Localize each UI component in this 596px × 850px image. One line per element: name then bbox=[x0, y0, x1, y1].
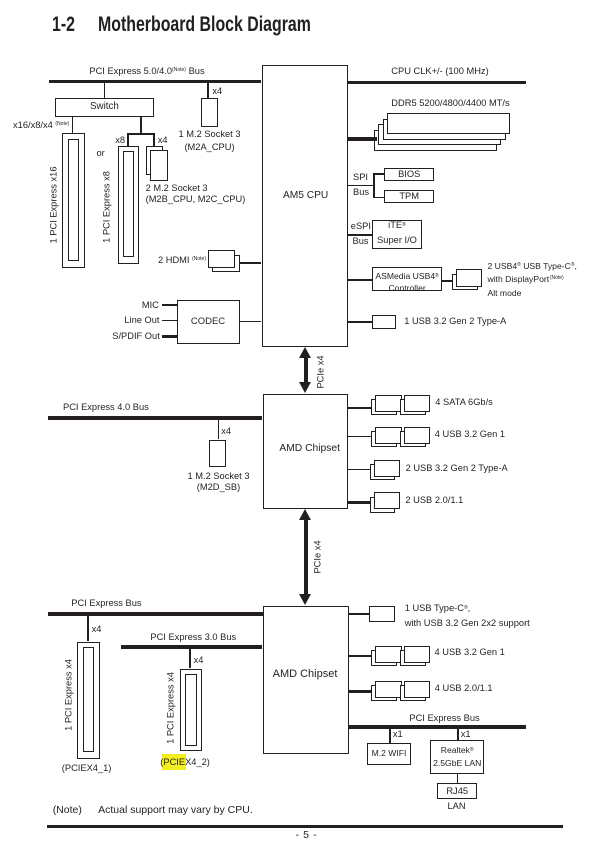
label: eSPI Bus bbox=[351, 222, 371, 231]
label: page number bbox=[296, 830, 318, 841]
icon: c2 USB2 connector 2 back bbox=[400, 685, 426, 701]
wire: S/PDIF line (thick) bbox=[162, 335, 177, 338]
label: Line Out bbox=[120, 316, 160, 325]
wire: chipset2 to USB3.2g1 bbox=[349, 655, 372, 656]
wire: bus to Switch bbox=[104, 83, 106, 98]
box: TPM bbox=[384, 190, 434, 204]
label: x4 (M2D) bbox=[221, 427, 231, 436]
box: M2D socket bbox=[209, 440, 226, 468]
icon: c2 USB g1 connector 1 back bbox=[371, 650, 397, 666]
box: AM5 CPU bbox=[262, 65, 349, 347]
wire: bus to M2A socket (thick) bbox=[207, 83, 209, 98]
wire: PCIe bus bottom-right (thick) bbox=[349, 725, 527, 729]
icon: 2 M.2 sockets front rect bbox=[150, 150, 168, 180]
box: AMD Chipset (lower) bbox=[263, 606, 349, 754]
icon: USB g2 connector front bbox=[374, 460, 400, 477]
icon: USB g1 connector 2 front bbox=[404, 427, 431, 444]
label: PCI Express 5.0/4.0 Bus bbox=[89, 67, 204, 76]
icon: HDMI front rect bbox=[208, 250, 235, 268]
box: Realtek 2.5GbE LAN bbox=[430, 740, 484, 773]
label: x1 (lan) bbox=[461, 730, 471, 739]
label: x4 (M2A) bbox=[212, 87, 222, 96]
icon: 2 M.2 sockets back rect bbox=[146, 146, 163, 175]
label: PCI Express 4.0 Bus bbox=[63, 403, 149, 412]
label: PCIe x4 (rotated, upper) bbox=[316, 355, 325, 388]
wire: junction right drop to M.2 pair bbox=[153, 133, 155, 147]
label: 1 USB Type-C with USB 3.2 Gen 2x2 support bbox=[405, 602, 530, 628]
label: x4 (M.2 pair) bbox=[158, 136, 168, 145]
label: 2 USB 3.2 Gen 2 Type-A bbox=[406, 464, 508, 473]
box: Switch bbox=[55, 98, 154, 117]
box: RJ45 bbox=[437, 783, 477, 800]
icon: USB2 connector front bbox=[374, 492, 400, 509]
wire: SPI bracket vertical bbox=[373, 173, 374, 199]
label: 4 USB 3.2 Gen 1 bbox=[435, 430, 505, 439]
slot: PCIEX4_2 outer bbox=[180, 669, 203, 752]
icon: USB 3.2 gen2 type-A connector bbox=[372, 315, 397, 329]
icon: USB4 type-C back rect bbox=[452, 274, 478, 290]
title bbox=[52, 14, 75, 35]
icon: USB g1 connector 1 back bbox=[371, 431, 397, 447]
icon: c2 USB g1 connector 2 back bbox=[400, 650, 426, 666]
icon: USB2 connector back bbox=[370, 497, 396, 513]
label: 2 USB 2.0/1.1 bbox=[405, 496, 463, 505]
label: LAN bbox=[447, 802, 465, 811]
wire: CPU to ASMedia (thick) bbox=[348, 279, 372, 282]
wire: stub to BIOS bbox=[373, 173, 384, 174]
wire: chipset to USB2.0 (thick) bbox=[348, 501, 371, 504]
label: 4 SATA 6Gb/s bbox=[435, 398, 493, 407]
box: CODEC bbox=[177, 300, 240, 344]
arrow: CPU to chipset1 (PCIe x4) bbox=[299, 347, 311, 358]
icon: USB g1 connector 2 back bbox=[400, 431, 426, 447]
highlight: yellow bbox=[162, 754, 186, 770]
label: 1 M.2 Socket 3 (M2A_CPU) bbox=[178, 128, 240, 154]
wire: stub to TPM bbox=[373, 197, 384, 199]
wire: PCIe 5.0/4.0 bus (thick) bbox=[49, 80, 262, 83]
wire: SPI underline bbox=[348, 185, 375, 186]
icon: c2 USB g1 connector 2 front bbox=[404, 646, 431, 663]
wire: CPU to USB 3.2 gen2 (thick) bbox=[348, 321, 372, 324]
wire: eSPI underline bbox=[348, 234, 372, 235]
icon: SATA connector 1 back bbox=[371, 399, 397, 415]
slot: PCIEX4_2 inner bbox=[185, 674, 197, 746]
label: x4 (PCIEX4_1) bbox=[92, 625, 102, 634]
wire: chipset to SATA (thick) bbox=[348, 407, 371, 410]
label: PCI Express 3.0 Bus bbox=[150, 633, 236, 642]
wire: Realtek to RJ45 bbox=[457, 774, 458, 783]
icon: c2 USB g1 connector 1 front bbox=[375, 646, 401, 663]
label: DDR5 bbox=[391, 99, 509, 108]
slot: PCI Express x8 outer bbox=[118, 146, 139, 264]
slot: PCI Express x16 outer bbox=[62, 133, 85, 268]
footer rule bbox=[47, 825, 563, 828]
label: x4 (PCIEX4_2) bbox=[194, 656, 204, 665]
wire: CODEC to CPU bbox=[240, 321, 261, 322]
icon: USB type-C connector bbox=[369, 606, 395, 622]
label: or bbox=[97, 149, 105, 158]
label: 2 USB4 USB Type-C with DisplayPort Alt mode bbox=[488, 261, 577, 299]
icon: USB4 type-C front rect bbox=[456, 269, 482, 286]
icon: DIMM slot 3 bbox=[378, 124, 501, 145]
slot: PCI Express x16 inner bbox=[68, 139, 79, 261]
wire: HDMI to CPU bbox=[240, 262, 262, 263]
icon: SATA connector 1 front bbox=[375, 395, 401, 412]
label: 2 M.2 Socket 3 (M2B_CPU, M2C_CPU) bbox=[146, 183, 246, 206]
label: 4 USB 3.2 Gen 1 (chipset2) bbox=[435, 648, 505, 657]
wire: junction bar bbox=[127, 133, 155, 135]
label: MIC bbox=[129, 301, 159, 310]
label: 1 PCI Express x16 (rotated) bbox=[49, 167, 58, 244]
label: S/PDIF Out bbox=[110, 332, 160, 341]
label: (PCIEX4_2) bbox=[160, 758, 210, 767]
label: 2 HDMI bbox=[158, 256, 206, 265]
icon: DIMM slot 1 (front) bbox=[387, 113, 510, 134]
label: 1 M.2 Socket 3 (M2D_SB) bbox=[187, 471, 249, 491]
wire: chipset to USB3.2g1 bbox=[348, 436, 371, 437]
label: 1 PCI Express x8 (rotated) bbox=[103, 171, 112, 243]
label: PCIe x4 (rotated, lower) bbox=[313, 540, 322, 573]
box: ASMedia USB4 Controller bbox=[372, 267, 441, 291]
icon: USB g1 connector 1 front bbox=[375, 427, 401, 444]
label: 4 USB 2.0/1.1 bbox=[435, 684, 493, 693]
wire: bus to M2D socket bbox=[218, 420, 220, 440]
label: x16/x8/x4 (Note) bbox=[13, 121, 69, 130]
wire: junction left drop to x8 slot bbox=[127, 133, 129, 146]
wire: switch to x16 slot bbox=[72, 117, 74, 133]
icon: USB g2 connector back bbox=[370, 464, 396, 480]
wire: bus to PCIEX4_2 bbox=[189, 649, 191, 669]
icon: SATA connector 2 back bbox=[400, 399, 426, 415]
wire: bus to M.2 WIFI bbox=[389, 729, 391, 744]
icon: c2 USB2 connector 2 front bbox=[404, 681, 431, 698]
label: PCI Express Bus (bottom-left) bbox=[71, 599, 141, 608]
box: BIOS bbox=[384, 168, 434, 182]
label: (PCIEX4_1) bbox=[62, 764, 112, 773]
icon: c2 USB2 connector 1 back bbox=[371, 685, 397, 701]
label: PCI Express Bus (bottom-right) bbox=[409, 714, 479, 723]
wire: bus to PCIEX4_1 bbox=[87, 616, 90, 642]
box: AMD Chipset (upper) bbox=[263, 394, 349, 509]
wire: ASMedia to USB4 icon bbox=[442, 280, 452, 282]
icon: HDMI back rect bbox=[212, 255, 240, 272]
icon: SATA connector 2 front bbox=[404, 395, 431, 412]
label: SPI Bus bbox=[353, 173, 368, 182]
wire: bus to Realtek LAN bbox=[457, 729, 459, 741]
slot: PCIEX4_1 inner bbox=[83, 647, 95, 753]
wire: CPU CLK line bbox=[348, 81, 526, 84]
slot: PCI Express x8 inner bbox=[123, 151, 134, 257]
box: M.2 WIFI bbox=[367, 743, 412, 764]
wire: PCIe 3.0 bus (thick) bbox=[121, 645, 263, 649]
wire: memory bus (thick) bbox=[348, 137, 377, 140]
box: iTE Super I/O bbox=[372, 220, 421, 250]
wire: PCIe 4.0 bus (thick) bbox=[48, 416, 262, 419]
label: 1 PCI Express x4 (rotated, slot1) bbox=[64, 659, 73, 731]
wire: PCI Express bus (thick) bbox=[48, 612, 263, 616]
slot: PCIEX4_1 outer bbox=[77, 642, 100, 760]
wire: chipset to USB3.2g2 bbox=[348, 469, 374, 470]
label: 1 USB 3.2 Gen 2 Type-A bbox=[404, 317, 506, 326]
wire: Line Out line bbox=[162, 320, 177, 321]
label: x8 bbox=[115, 136, 125, 145]
wire: chipset2 to USB2.0 (thick) bbox=[349, 690, 372, 693]
wire: switch to x8 junction (thick) bbox=[140, 117, 142, 133]
box: M2A socket bbox=[201, 98, 217, 127]
arrow: chipset1 to chipset2 (PCIe x4) bbox=[299, 509, 311, 520]
label: 1 PCI Express x4 (rotated, slot2) bbox=[166, 672, 175, 744]
label: x1 (wifi) bbox=[393, 730, 403, 739]
icon: c2 USB2 connector 1 front bbox=[375, 681, 401, 698]
icon: DIMM slot 2 bbox=[383, 119, 506, 140]
icon: DIMM slot 4 (backmost) bbox=[374, 130, 497, 151]
note bbox=[53, 805, 82, 816]
wire: MIC line (thick) bbox=[162, 304, 177, 307]
wire: chipset2 to type-C bbox=[349, 613, 370, 614]
label: CPU CLK bbox=[391, 67, 488, 76]
